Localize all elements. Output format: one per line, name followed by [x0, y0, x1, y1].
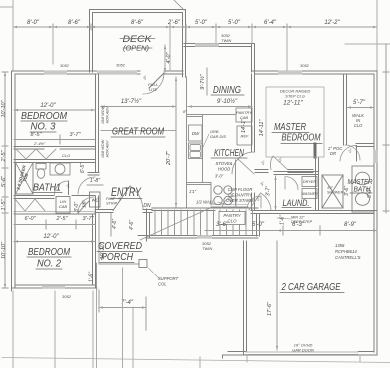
svg-text:WASHER: WASHER — [301, 192, 318, 196]
label: 16' ovhd gar door — [292, 343, 314, 353]
dryer box — [302, 177, 317, 187]
door: bedroom2 — [78, 197, 94, 213]
svg-text:WC: WC — [92, 198, 100, 203]
room label: MASTER BEDROOM — [272, 121, 322, 144]
svg-text:2°: 2° — [64, 182, 71, 189]
wall: bath1 south / hall (y=196) — [14, 196, 95, 199]
dim: garage 17'-6 rotated — [267, 241, 278, 350]
svg-text:5'-0": 5'-0" — [195, 20, 208, 26]
dim: dining 9'-7 1/2 rotated — [199, 68, 207, 95]
svg-text:STOVE&: STOVE& — [216, 161, 233, 166]
svg-text:3052: 3052 — [60, 63, 70, 68]
dim: great room 13'-7 1/2 — [101, 98, 176, 108]
dim: bedroom2 12'-0 — [14, 234, 95, 243]
wall: great room north (under deck) with window band — [92, 71, 183, 75]
svg-text:10'-10": 10'-10" — [1, 99, 7, 117]
svg-text:1'-6": 1'-6" — [89, 272, 95, 282]
svg-text:1'-5": 1'-5" — [1, 198, 7, 210]
svg-text:1358: 1358 — [335, 243, 345, 248]
svg-text:CAB: CAB — [59, 204, 68, 209]
wall: walk-in closet west (x=345) — [344, 74, 347, 145]
room label: BEDROOM NO. 3 — [21, 111, 68, 133]
wall: dining east jog (vertical x=252) — [252, 44, 255, 74]
svg-text:GAR DIS: GAR DIS — [210, 134, 226, 139]
wall: deck outline — [90, 0, 186, 77]
stairs treads — [155, 210, 253, 235]
svg-text:14'-11": 14'-11" — [259, 119, 265, 137]
svg-text:10'-10": 10'-10" — [1, 241, 7, 259]
svg-text:1'1": 1'1" — [189, 189, 196, 194]
svg-text:CLO: CLO — [62, 153, 70, 158]
dim: master 14'-1 / 14'-11 rotated — [241, 118, 265, 136]
window 3052 twin dining — [195, 43, 219, 47]
garbage disposal label — [203, 129, 226, 147]
label: clip floor of pantry over stairs — [226, 187, 254, 203]
label: 1/2 wall — [189, 189, 224, 205]
door: master bedroom — [270, 156, 288, 170]
tub — [16, 163, 34, 195]
wall: hall east of stairs — [257, 214, 260, 236]
wall: bedroom2 closet band — [14, 211, 95, 214]
svg-text:17'-6": 17'-6" — [267, 301, 273, 316]
dim: bedroom3 12'-0" — [14, 103, 95, 111]
svg-text:TWIN: TWIN — [221, 38, 231, 43]
wall: bedroom2 east (x=95) — [93, 213, 96, 288]
svg-text:HDR ABV: HDR ABV — [106, 106, 110, 123]
label: soaker tub rotated — [15, 165, 29, 191]
svg-text:8": 8" — [183, 109, 187, 114]
pantry under stairs label box — [219, 212, 245, 225]
porch west edge — [99, 213, 139, 264]
label: decor raised step clg — [280, 89, 311, 107]
plan id: 1358 RCPHB614 CANTRELL'S — [335, 243, 361, 260]
label: stove hood — [215, 161, 233, 179]
kitchen south counter band — [187, 160, 249, 207]
svg-text:REF: REF — [241, 134, 250, 139]
svg-text:2'-4½": 2'-4½" — [33, 141, 46, 146]
svg-text:3'-7": 3'-7" — [266, 186, 272, 196]
svg-text:12'-0": 12'-0" — [43, 234, 59, 240]
svg-text:3'0": 3'0" — [327, 186, 334, 190]
door: hall/kitchen — [232, 152, 254, 174]
wall: exterior left — [12, 71, 15, 291]
svg-text:RCPHB614: RCPHB614 — [335, 249, 357, 254]
wall: dining north exterior — [184, 43, 255, 47]
wall: laundry north (y=173) — [274, 172, 318, 175]
pantry cabinet box — [236, 108, 252, 122]
door: pantry left — [222, 196, 236, 208]
wall: bedroom3 closet band — [14, 147, 95, 163]
svg-text:3'-6": 3'-6" — [344, 186, 350, 196]
svg-text:12'-2": 12'-2" — [324, 20, 340, 26]
svg-text:4'-6": 4'-6" — [129, 220, 135, 230]
dim: wdw hdr labels — [101, 105, 110, 158]
door: deck full-lite door arc — [143, 73, 164, 94]
window: right wall master bath — [374, 150, 377, 163]
door: hall tent door — [249, 193, 271, 210]
door: laundry interior — [285, 177, 298, 190]
label: walk-in closet — [352, 113, 364, 128]
svg-text:BEDROOM: BEDROOM — [21, 111, 68, 122]
dim line: right side column — [383, 44, 389, 213]
shower with X — [322, 175, 343, 208]
svg-text:COL: COL — [158, 282, 167, 287]
wall: garage south + garage door — [223, 352, 378, 359]
dim: dining 9'-10 1/2 — [183, 98, 252, 114]
door labels (sizes) — [64, 74, 353, 207]
svg-text:CLIP FLOOR: CLIP FLOOR — [228, 187, 253, 192]
svg-text:5'-0": 5'-0" — [228, 20, 241, 26]
wall: laundry east / master bath west (x=317) — [316, 158, 319, 210]
svg-text:14'-1": 14'-1" — [241, 118, 247, 133]
door: front entry — [113, 186, 143, 211]
dim: bedroom3 8'-5" / 3'-7" — [14, 132, 95, 144]
svg-text:DINING: DINING — [213, 85, 241, 96]
svg-text:(OPEN): (OPEN) — [123, 46, 149, 53]
svg-text:3'-7": 3'-7" — [70, 132, 82, 138]
svg-text:5'-6": 5'-6" — [1, 175, 7, 187]
svg-text:1'-8": 1'-8" — [90, 178, 100, 184]
svg-text:6'-3": 6'-3" — [292, 222, 305, 228]
svg-text:12'-0": 12'-0" — [40, 103, 56, 109]
svg-text:TWIN: TWIN — [202, 246, 212, 251]
door: bath1 — [55, 181, 69, 195]
svg-text:2'-5": 2'-5" — [1, 149, 7, 162]
svg-text:5'-7": 5'-7" — [353, 100, 366, 106]
kitchen west counter line — [187, 77, 203, 207]
vanity bath1 — [50, 163, 70, 175]
svg-text:1/2 WALL: 1/2 WALL — [196, 200, 215, 205]
label: full lite deck door — [148, 82, 158, 92]
svg-text:5'-0": 5'-0" — [367, 188, 373, 198]
svg-text:9'-7½": 9'-7½" — [199, 73, 206, 90]
svg-text:DR: DR — [330, 151, 336, 156]
wall: laundry/master-bath south (garage north) — [251, 211, 377, 214]
wall: entry south (y=211) — [95, 210, 152, 213]
door: hall to great room — [78, 177, 95, 194]
dim: porch 7'-4 — [99, 290, 146, 330]
wall: master bedroom south (y=171) — [255, 170, 313, 173]
room label: KITCHEN — [211, 148, 247, 159]
label: DN — [143, 203, 151, 209]
svg-text:10'-10": 10'-10" — [100, 241, 106, 259]
svg-text:3052: 3052 — [300, 63, 310, 68]
svg-text:2°: 2° — [259, 159, 266, 166]
svg-text:ENTRY: ENTRY — [111, 187, 142, 199]
svg-text:CLO: CLO — [354, 123, 363, 128]
svg-text:6'-4": 6'-4" — [264, 20, 277, 26]
svg-text:LITE: LITE — [149, 87, 158, 92]
svg-text:HDR ABV: HDR ABV — [106, 140, 110, 157]
svg-text:20'-7": 20'-7" — [166, 150, 172, 166]
dim: deck 4'-0 rotated — [164, 45, 172, 72]
wall: kitchen-dining east / master west (x=252) — [252, 74, 255, 210]
svg-text:16/8 WDW: 16/8 WDW — [101, 105, 105, 124]
svg-text:DRYER: DRYER — [303, 180, 316, 184]
dim: closet 2'-4 1/2 — [33, 141, 70, 158]
wall: master bedroom north exterior — [252, 71, 378, 75]
dim: entry 1'-8 — [87, 178, 103, 185]
svg-text:6'-0": 6'-0" — [25, 216, 37, 222]
svg-text:CLO: CLO — [227, 219, 237, 224]
svg-text:HOOD: HOOD — [218, 167, 231, 172]
room label: ENTRY — [110, 187, 142, 199]
wall: exterior right — [374, 71, 377, 355]
svg-text:8'-9": 8'-9" — [344, 222, 357, 228]
svg-text:OF PANTRY: OF PANTRY — [228, 193, 253, 198]
dim: great room 20'-7 vertical — [166, 77, 177, 207]
wall: kitchen south / stairs north rail — [152, 208, 258, 211]
room label: LAUND — [282, 198, 311, 209]
closet bifold doors bedroom3 — [16, 149, 56, 159]
svg-text:8'-6": 8'-6" — [131, 20, 144, 26]
dim: hall 3'-7 vertical line — [274, 176, 276, 210]
svg-text:GREAT ROOM: GREAT ROOM — [112, 126, 164, 138]
svg-text:8'-0": 8'-0" — [27, 20, 40, 26]
svg-text:8'-6": 8'-6" — [68, 20, 81, 26]
svg-text:SHOWER: SHOWER — [327, 191, 344, 195]
svg-text:BEDROOM: BEDROOM — [28, 247, 71, 258]
svg-text:STEP CLG: STEP CLG — [285, 94, 305, 99]
room label: BEDROOM NO. 2 — [27, 247, 71, 270]
wall: stairs south (y=236) — [138, 235, 258, 238]
kitchen sink (double) — [189, 143, 203, 159]
room label: DINING — [211, 85, 244, 96]
svg-text:3°: 3° — [259, 180, 266, 187]
svg-text:3'-7": 3'-7" — [83, 216, 95, 222]
svg-text:KITCHEN: KITCHEN — [214, 148, 245, 159]
window label 3052 twin (stairs south) — [202, 241, 212, 251]
dim: pantry 3'-6 / 5'-0 — [205, 222, 283, 235]
svg-text:DW: DW — [192, 131, 200, 136]
svg-text:3'-0": 3'-0" — [215, 174, 224, 179]
stairs diagonal break line — [140, 208, 210, 240]
dim: hall 6'-0 2'-5 3'-7 row — [14, 216, 95, 229]
master bedroom decor ceiling box — [266, 87, 324, 157]
cooktop burners — [214, 186, 232, 205]
dim: laundry 6'-3 / garage 8'-9 — [277, 222, 377, 235]
svg-text:7'-4": 7'-4" — [121, 300, 134, 306]
room label: 2 CAR GARAGE — [280, 281, 344, 293]
svg-text:3'-0": 3'-0" — [74, 202, 80, 212]
svg-text:STRIP: STRIP — [106, 202, 118, 206]
svg-text:GAR DOOR: GAR DOOR — [292, 348, 314, 353]
svg-text:16/8 WDW: 16/8 WDW — [101, 139, 105, 158]
wall: top-left exterior (bedroom 3 north) — [12, 71, 98, 75]
svg-text:4'-0": 4'-0" — [166, 51, 172, 63]
wall: pocket door segment — [314, 144, 317, 157]
door: hall to garage — [247, 196, 261, 208]
dishwasher box — [189, 125, 203, 141]
svg-text:CANTRELL'S: CANTRELL'S — [335, 255, 361, 260]
refrigerator box — [237, 126, 252, 145]
washer box — [301, 189, 318, 199]
kitchen north counter band — [187, 115, 236, 117]
wall: master bath north (y=145) — [356, 144, 374, 147]
svg-text:DN: DN — [143, 203, 151, 209]
closet bifold doors bedroom2 — [15, 199, 45, 211]
master bath vanity — [352, 166, 374, 212]
dim line top — [13, 24, 377, 30]
svg-text:3052: 3052 — [116, 63, 126, 68]
svg-text:1'-6": 1'-6" — [280, 215, 286, 225]
wall: bedroom2 south exterior — [12, 285, 98, 289]
toilet bath1 — [36, 164, 46, 179]
svg-text:8'-5": 8'-5" — [31, 132, 43, 138]
extension lines top — [0, 0, 390, 71]
door: walk-in closet — [345, 145, 360, 160]
support column — [139, 260, 179, 287]
svg-text:5'-0": 5'-0" — [252, 222, 265, 228]
svg-text:6'-5": 6'-5" — [80, 163, 86, 173]
room label: MASTER BATH — [348, 177, 373, 194]
WC box — [90, 192, 101, 207]
dim: porch edge 1'-6 rotated — [89, 263, 97, 291]
door: master bath entry — [340, 146, 357, 162]
svg-text:9'-10½": 9'-10½" — [217, 98, 238, 105]
label: full lite entry — [106, 197, 118, 206]
svg-text:3052: 3052 — [62, 294, 72, 299]
svg-text:TUB: TUB — [22, 173, 29, 183]
room label: BATH1 — [33, 183, 62, 194]
svg-text:3°: 3° — [142, 74, 149, 80]
svg-text:3'-6": 3'-6" — [216, 222, 229, 228]
room label: COVERED PORCH — [97, 241, 142, 263]
wall: stairs west end — [147, 209, 150, 241]
wall: great room west (x=95) — [88, 74, 99, 213]
svg-text:4'-6": 4'-6" — [112, 219, 118, 229]
svg-text:13'-7½": 13'-7½" — [121, 98, 142, 105]
svg-text:BATH1: BATH1 — [33, 183, 61, 194]
svg-text:PANTRY: PANTRY — [223, 213, 241, 218]
dim: master closet 5'-7 — [347, 100, 374, 109]
svg-text:SUPPORT: SUPPORT — [158, 276, 179, 281]
svg-text:MIN 12": MIN 12" — [291, 216, 305, 220]
label: 2'8 pocket door — [327, 146, 343, 156]
dim: porch 4'-6 rotated — [111, 213, 135, 236]
svg-text:2'-6": 2'-6" — [167, 20, 181, 26]
shower label — [327, 186, 344, 195]
svg-text:12'-11": 12'-11" — [283, 100, 303, 107]
svg-text:NO. 2: NO. 2 — [37, 259, 61, 270]
wall: garage west — [244, 241, 247, 355]
window label 3052 TWIN (dining) — [221, 33, 231, 43]
svg-text:FLAT: FLAT — [106, 197, 116, 201]
svg-text:2'-5": 2'-5" — [56, 216, 69, 222]
linen cabinet box — [56, 197, 70, 214]
label: min 12" deep step — [277, 216, 313, 225]
svg-text:2 CAR GARAGE: 2 CAR GARAGE — [281, 281, 341, 293]
room label: GREAT ROOM — [101, 126, 176, 138]
window 3052 master — [278, 71, 302, 75]
svg-text:BEDROOM: BEDROOM — [282, 132, 321, 144]
window 3052 bedroom 3 — [44, 71, 67, 75]
svg-text:DECK: DECK — [123, 34, 153, 45]
svg-text:NO. 3: NO. 3 — [31, 122, 56, 133]
room label: DECK — [120, 34, 155, 53]
